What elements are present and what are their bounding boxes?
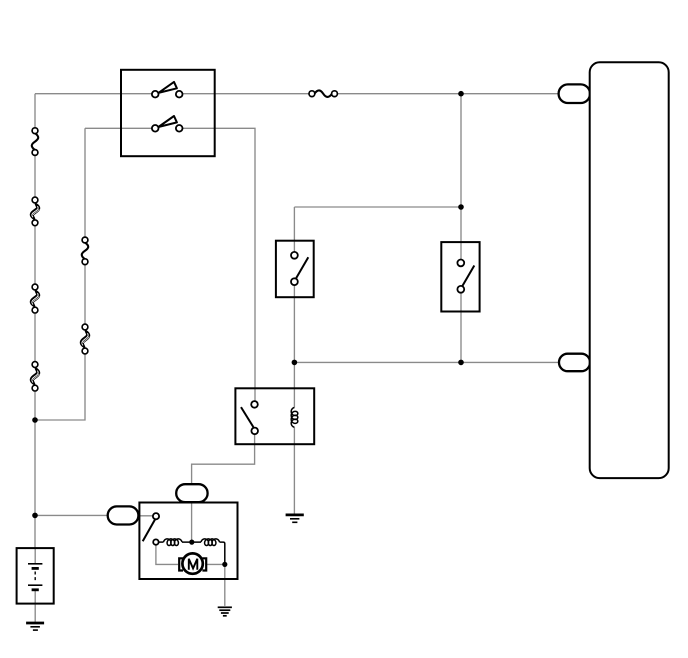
node G junction field coil centre [189,540,194,545]
battery B1 box [17,548,54,604]
fusible link FL4 [80,324,90,354]
wire W5 ignition switch output through fuse F4 to node C [183,93,559,95]
wire W20 battery negative to ground lead [34,590,36,622]
field coil centre stubs [182,541,201,543]
field coil stub left [159,541,164,543]
relay K1 box [235,388,314,444]
node E junction [292,360,298,366]
connector P1 battery to motor unit [108,506,139,524]
battery B1 cell dashes [34,572,36,582]
node B junction [32,513,38,519]
node C junction [458,91,464,97]
switch S2 contacts [291,252,298,259]
wire W19 battery internal top lead [34,548,36,564]
connector P2 relay to motor unit [176,484,207,502]
switch S3 blade [462,266,474,287]
fusible link FL3 [30,362,40,391]
wire W4 second vertical branch with jog to node A [35,128,85,420]
wire W8 mid horizontal link [294,206,461,208]
wire W6 ignition switch output 2 down to relay K1 contact [183,128,256,401]
switch S2 box [276,241,314,298]
wire W13 battery positive through connector P1 to motor unit switch [35,514,153,516]
switch S1a wedge blade [158,82,177,93]
wire W15 motor armature right lead to node H [206,563,224,565]
wire W9 vertical through switch S2 [293,207,295,362]
relay K1 switch blade [241,407,253,427]
wire W10 lower bus to connector P4 [294,361,558,363]
wire W1 battery bus to ignition switch pin 1 [35,93,152,95]
node A junction [32,417,38,423]
wire W11 relay coil feed and ground lead [293,362,295,513]
ground G3 under battery [26,623,44,630]
motor M1 letter [189,559,198,570]
battery B1 plates [28,564,42,590]
motor M1 body [182,553,202,573]
ground G1 under relay coil [286,515,304,522]
connector P4 bottom right [559,354,590,372]
fuse F2 on second branch [82,237,88,265]
motor M1 left bracket [179,558,183,570]
motor unit box [139,503,237,580]
wire W14 motor armature left lead [156,545,178,565]
relay K1 contacts [251,401,258,408]
wire W16 motor unit ground lead [224,564,226,606]
fuse F4 top horizontal [309,90,337,96]
fusible link FL1 [30,197,40,226]
switch S3 contacts [457,260,464,267]
switch S1a contact pins [152,91,159,98]
field coil L2 [201,539,220,546]
field coil terminal [153,539,158,544]
relay K1 coil [291,408,298,428]
motor M1 right bracket [202,558,206,570]
wire W7 right vertical through switch S3 [460,94,462,363]
field coil L1 [164,539,183,546]
switch S3 box [441,242,479,311]
field coil corner lead to node H [220,542,225,564]
ignition switch S1 box [121,70,215,156]
wire W3 second feed to ignition switch pin 2 [85,127,152,129]
fuse F1 on left bus [32,128,38,156]
switch S2 blade [296,257,309,278]
fusible link FL2 [30,284,40,313]
node F junction [458,360,464,366]
switch S1b wedge blade [158,116,177,127]
node H junction motor output [222,562,227,567]
wire W2 left battery bus vertical [34,94,36,548]
wire W12 relay output to connector P2 and motor unit [192,434,255,542]
motor unit switch blade [143,520,155,542]
motor unit switch contact [153,513,159,519]
switch S1b contact pins [152,125,159,132]
connector P3 top right [559,84,590,103]
node D junction [458,204,464,210]
gauge unit block [590,62,669,478]
ground G2 under motor unit [218,607,232,616]
